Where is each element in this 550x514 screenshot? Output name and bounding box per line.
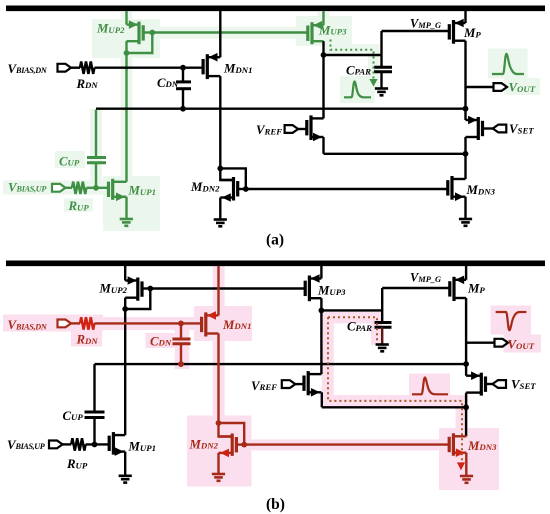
glitch pulse at VOUT (a) — [492, 54, 524, 74]
wire MP source (b) — [465, 266, 467, 280]
wire RUP to MUP1 gate (b) — [86, 443, 110, 445]
resistor RDN (a) — [80, 62, 94, 74]
transistor VSET (b) — [466, 371, 485, 395]
wire MUP1 source (b) — [124, 452, 126, 476]
node CUP / RUP junction (b) — [92, 442, 98, 448]
wire CUP bottom (a) — [95, 163, 97, 188]
glitch pulse at VOUT (b) — [496, 312, 527, 330]
resistor RUP (b) — [71, 438, 85, 450]
transistor MDN2 (a) — [220, 177, 237, 202]
wire RUP to MUP1 gate (a) — [86, 187, 108, 189]
capacitor CDN (b) — [173, 338, 191, 341]
wire MDN2 gate stub (b) — [236, 443, 244, 445]
node CDN bottom (a) — [180, 106, 186, 112]
wire CUP branch (a) — [95, 110, 97, 158]
transistor MDN1 (a) — [203, 53, 220, 79]
transistor MDN3 (b) — [449, 433, 466, 457]
wire CPAR top (a) — [380, 31, 382, 67]
ground CPAR (b) — [376, 343, 389, 346]
wire CUP branch (b) — [93, 364, 95, 412]
wire MUP2 drain (a) — [125, 41, 127, 53]
wire MDN1 drain (b) — [217, 266, 219, 315]
port VREF (a) — [285, 125, 299, 133]
transistor MDN1 (b) — [202, 311, 219, 336]
glitch pulse at tail (b) — [412, 378, 448, 395]
wire VOUT stub (b) — [466, 342, 494, 344]
wire VBIAS,DN to RDN (a) — [71, 66, 80, 68]
wire VBIAS,UP to RUP (a) — [66, 187, 73, 189]
wire VOUT stub (a) — [466, 86, 494, 88]
transistor MP (a) — [449, 19, 465, 44]
wire VREF gate (b) — [295, 383, 304, 385]
wire MUP2 gate stub (b) — [142, 287, 150, 289]
wire down to VREF drain (b) — [320, 310, 322, 374]
node CDN top (a) — [180, 65, 186, 71]
transistor MUP2 (b) — [125, 276, 142, 301]
wire MP drain (b) — [465, 298, 467, 364]
wire VREF gate (a) — [298, 128, 307, 130]
wire CDN top (b) — [180, 323, 182, 339]
wire CPAR bottom (b) — [381, 327, 383, 344]
wire MUP2 diode connection (b) — [125, 289, 150, 310]
ground MDN2 (a) — [214, 218, 227, 221]
wire VMP_G (a) — [382, 30, 450, 32]
dotted path arrowhead (b) — [457, 462, 465, 470]
wire MDN2 diode connection (a) — [220, 168, 246, 189]
wire VBIAS,UP to RUP (b) — [63, 443, 72, 445]
ground MUP1 (a) — [120, 218, 133, 221]
wire MUP3 source (a) — [322, 11, 324, 25]
wire MDN1 source (a) — [219, 76, 221, 168]
node MUP3 drain (a) — [321, 52, 327, 58]
wire MDN1 drain (a) — [219, 11, 221, 57]
wire tail line (a) — [324, 153, 466, 155]
wire mirror gate line MDN2-MDN3 (a) — [246, 188, 448, 190]
wire CDN bottom (a) — [182, 89, 184, 109]
node tail (a) — [463, 151, 469, 157]
port VBIAS,DN (a) — [58, 64, 72, 72]
node CDN top (b) — [178, 321, 184, 327]
node CUP / RUP junction (a) — [93, 185, 99, 191]
wire MDN2 source (a) — [219, 198, 221, 220]
wire VSET source (b) — [465, 393, 467, 408]
wire VSET drain (a) — [464, 109, 466, 120]
wire CUP bottom (b) — [93, 418, 95, 445]
wire feedback node line (b) — [95, 363, 467, 365]
VDD rail (b) — [6, 260, 545, 266]
transistor MUP3 (a) — [308, 21, 324, 44]
wire MUP3 drain to CPAR (a) — [324, 54, 382, 56]
wire MDN2 gate stub (a) — [238, 188, 246, 190]
wire CDN top (a) — [182, 68, 184, 82]
wire RDN to MDN1 gate (a) — [94, 66, 203, 68]
transistor MDN2 (b) — [219, 434, 237, 458]
transistor MP (b) — [450, 276, 466, 302]
node MUP2 gate (a) — [149, 30, 155, 36]
svg-text:(a): (a) — [266, 232, 284, 249]
wire VREF source corner (b) — [321, 392, 323, 407]
port VBIAS,UP (a) — [52, 184, 66, 192]
transistor MUP2 (a) — [127, 20, 144, 44]
wire VSET drain (b) — [465, 364, 467, 376]
wire MDN2 drain corner (a) — [220, 168, 233, 180]
ground MDN3 (b) — [460, 475, 473, 478]
panel (a) light-green highlights — [3, 12, 540, 231]
wire RDN to MDN1 gate (b) — [94, 322, 201, 324]
wire MDN3 source (b) — [465, 453, 467, 476]
node MDN2 drain (b) — [216, 420, 222, 426]
node MUP2 drain (b) — [122, 306, 128, 312]
port VREF (b) — [282, 380, 296, 388]
svg-text:(b): (b) — [266, 496, 285, 513]
wire MUP3 drain down (b) — [320, 298, 322, 310]
ground CPAR (a) — [375, 87, 388, 90]
wire VMP_G (b) — [382, 287, 450, 289]
wire VSET source (a) — [464, 137, 466, 154]
node VOUT (a) — [463, 106, 469, 112]
wire MDN3 source (a) — [464, 197, 466, 219]
wire down to VREF drain (a) — [322, 55, 324, 118]
capacitor CUP (b) — [85, 411, 105, 414]
wire CDN bottom (b) — [180, 344, 182, 364]
transistor MUP1 (b) — [109, 432, 125, 456]
node VOUT (b) — [463, 361, 469, 367]
wire tail line (b) — [322, 406, 466, 408]
wire MUP2 drain (b) — [124, 298, 126, 309]
wire MDN3 drain black (b) — [465, 407, 467, 436]
node MDN2 gate (b) — [241, 442, 247, 448]
capacitor CPAR (b) — [375, 321, 392, 324]
node MUP2 drain (a) — [124, 50, 130, 56]
dotted coupling path (a) — [331, 40, 374, 80]
wire MUP3 drain to CPAR (b) — [321, 309, 382, 311]
node CDN bottom (b) — [178, 361, 184, 367]
wire left column down to MUP1 (b) — [124, 309, 126, 435]
dotted path arrowhead (a) — [369, 79, 377, 87]
wire VREF source corner (a) — [322, 137, 324, 154]
ground MDN2 (b) — [212, 473, 225, 476]
ground MUP1 (b) — [119, 474, 132, 477]
wire MUP3 drain down (a) — [322, 41, 324, 55]
transistor MUP3 (b) — [305, 274, 321, 301]
transistor MUP1 (a) — [109, 179, 127, 201]
wire MUP3 source (b) — [320, 266, 322, 279]
dotted coupling path to MDN3 (b) — [328, 317, 462, 462]
port VSET (b) — [493, 380, 507, 388]
transistor MDN3 (a) — [448, 176, 466, 201]
port VSET (a) — [493, 125, 507, 133]
wire CPAR top (b) — [381, 288, 383, 323]
wire MUP2 source (b) — [124, 266, 126, 281]
wire gate line MUP2-MUP3 (b) — [150, 287, 305, 289]
wire MDN2 source (b) — [217, 453, 219, 474]
transistor VSET (a) — [466, 116, 483, 140]
capacitor CDN (a) — [176, 80, 191, 83]
wire MUP1 source (a) — [125, 197, 127, 219]
port VBIAS,UP (b) — [49, 441, 63, 449]
dotted coupling path around CPAR (b) — [328, 317, 377, 343]
wire MUP2 gate stub (a) — [143, 31, 152, 33]
glitch pulse at CPAR (a) — [344, 82, 371, 98]
wire MDN2 drain corner (b) — [219, 423, 233, 437]
wire MDN3 drain (a) — [464, 154, 466, 179]
resistor RDN (b) — [80, 317, 94, 329]
capacitor CPAR (a) — [374, 66, 392, 69]
node MUP2 gate (b) — [147, 286, 153, 292]
wire gate line MUP2-MUP3 (a) — [152, 31, 307, 33]
node tail (b) — [463, 404, 469, 410]
port VOUT (b) — [495, 339, 509, 347]
wire MDN1 source (b) — [217, 334, 219, 424]
wire MDN2 diode connection (b) — [219, 423, 245, 445]
wire MUP2 diode connection (a) — [127, 33, 153, 54]
transistor VREF (b) — [304, 371, 321, 397]
wire mirror gate line MDN2-MDN3 (b) — [244, 443, 449, 445]
resistor RUP (a) — [72, 182, 86, 194]
wire feedback node line (a) — [96, 107, 466, 109]
wire CPAR bottom (a) — [380, 72, 382, 88]
wire VSET gate (a) — [483, 127, 493, 129]
node MDN2 drain (a) — [217, 166, 223, 172]
node MUP3 drain (b) — [319, 308, 325, 314]
transistor VREF (a) — [307, 115, 324, 141]
wire MP source (a) — [464, 11, 466, 23]
port VBIAS,DN (b) — [58, 320, 72, 328]
wire MUP2 source (a) — [125, 11, 127, 25]
node MDN2 gate (a) — [243, 186, 249, 192]
panel (b) pink highlights — [3, 266, 541, 490]
capacitor CUP (a) — [87, 156, 106, 159]
VDD rail (a) — [6, 6, 545, 12]
wire left green column (a) — [125, 53, 127, 182]
ground MDN3 (a) — [459, 218, 472, 221]
wire VSET gate (b) — [486, 383, 493, 385]
wire VBIAS,DN to RDN (b) — [71, 322, 80, 324]
wire MP drain (a) — [464, 41, 466, 109]
port VOUT (a) — [494, 83, 508, 91]
